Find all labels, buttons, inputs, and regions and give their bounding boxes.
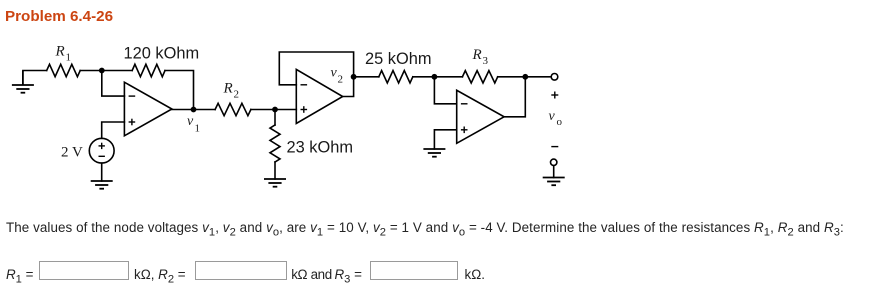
op-amp U1 (124, 82, 171, 136)
svg-text:v: v (331, 66, 338, 81)
svg-text:2 V: 2 V (61, 144, 83, 160)
wire node N1 down to U1 inverting input (102, 71, 125, 97)
answer row: kOhm. label (465, 267, 485, 282)
ground G2 (below V1) (91, 181, 113, 189)
wire U3 output up to node N4 (504, 77, 525, 117)
input box R2 (195, 261, 287, 281)
op-amp U3 (457, 90, 504, 143)
label - (output polarity) (551, 146, 558, 148)
terminal T2 (bottom output) (551, 159, 557, 165)
voltage source V1 2V (89, 138, 114, 163)
op-amp U2 (296, 69, 342, 123)
svg-text:o: o (557, 116, 563, 128)
wire R1 to node N1 (80, 70, 132, 72)
wire node N4 to output terminal (525, 76, 551, 78)
terminal T1 (top output) (551, 74, 558, 81)
answer row: kOhm, R2 label (134, 267, 186, 288)
label v2 (331, 66, 344, 86)
wire V1 to U1 noninverting input (102, 122, 125, 138)
answer row: R3 label (335, 267, 362, 288)
wire U2 feedback loop (279, 52, 353, 97)
wire 23k to ground (274, 162, 276, 179)
svg-text:1: 1 (195, 122, 201, 134)
wire R3 to node N4 (498, 76, 526, 78)
wire node N2 down to 23k (274, 110, 276, 126)
node v2 (351, 74, 357, 80)
wire 25 kOhm to node N3 (413, 76, 463, 78)
ground G1 (left of R1) (12, 71, 34, 93)
svg-text:v: v (187, 114, 194, 129)
wire U3 noninverting input to ground (434, 130, 456, 149)
wire 120 kOhm to node v1 (165, 71, 194, 110)
label R1 (55, 44, 72, 64)
node v1 (191, 107, 197, 113)
ground G5 (below T2) (543, 178, 565, 186)
resistor 25 kOhm (379, 71, 413, 83)
label R2 (223, 81, 240, 101)
node N4 (output junction) (522, 74, 528, 80)
wire ground to R1 (23, 70, 47, 72)
input box R1 (39, 261, 129, 281)
title Problem 6.4-26 (5, 9, 113, 25)
node N3 (junction 25k / R3 / U3 -) (432, 74, 438, 80)
node N2 (junction R2 / 23k / U2 +) (272, 107, 278, 113)
label v1 (187, 114, 200, 135)
label + (output polarity) (551, 92, 558, 99)
svg-text:R: R (223, 81, 233, 97)
answer row: R1 label (6, 267, 33, 288)
svg-text:25 kOhm: 25 kOhm (365, 50, 432, 68)
svg-text:R: R (55, 44, 65, 60)
input box R3 (370, 261, 458, 281)
resistor R1 (47, 64, 80, 76)
node N1 (inverting input junction) (99, 68, 105, 74)
wire node N3 down to U3 inverting input (434, 77, 456, 104)
ground G3 (below 23k) (264, 179, 286, 187)
problem statement paragraph (6, 220, 844, 241)
wire v2 to 25 kOhm (354, 76, 379, 78)
label R3 (472, 47, 489, 67)
resistor R2 (215, 103, 251, 115)
svg-text:v: v (549, 109, 556, 124)
svg-text:2: 2 (338, 74, 344, 86)
svg-text:1: 1 (66, 52, 72, 64)
wire R2 to node N2 (251, 109, 296, 111)
svg-text:2: 2 (234, 89, 240, 101)
svg-text:R: R (472, 47, 482, 63)
label vo (549, 109, 563, 128)
svg-text:120 kOhm: 120 kOhm (124, 45, 200, 63)
resistor 120 kOhm (132, 64, 165, 76)
answer row: kOhm and R3 label (291, 267, 332, 282)
svg-text:23 kOhm: 23 kOhm (287, 139, 354, 157)
wire U1 output to R2 (172, 109, 215, 111)
resistor 23 kOhm (270, 125, 280, 162)
ground G4 (below U3 +) (423, 149, 445, 157)
wire terminal T2 to ground (553, 166, 555, 178)
svg-text:3: 3 (483, 55, 489, 67)
wire V1 to ground (101, 163, 103, 181)
resistor R3 (462, 71, 497, 83)
